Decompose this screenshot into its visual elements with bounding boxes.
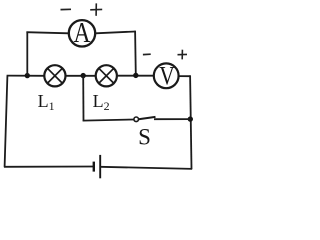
lamp L2: [96, 65, 117, 86]
wire: switch branch horizontal right of switch: [154, 118, 190, 120]
svg-text:S: S: [138, 125, 151, 150]
wire: switch branch horizontal left of switch: [83, 120, 134, 121]
wire: lamp rail segment left of L1: [7, 75, 45, 77]
wire: lamp rail between L1 and L2: [65, 75, 96, 77]
node: junction dot between L2 and voltmeter: [133, 73, 138, 78]
lamp L1: [44, 65, 65, 86]
node: junction dot left of L1 (ammeter branch tap): [25, 73, 30, 78]
wire: switch branch vertical from lamp rail: [82, 76, 84, 121]
ammeter A: [69, 17, 95, 49]
wire: left vertical (battery to lamp rail): [5, 76, 8, 167]
wire: lamp rail right of voltmeter to corner: [178, 75, 190, 77]
wire: right vertical (corner down to bottom): [190, 75, 191, 169]
voltmeter V: [154, 61, 179, 90]
wire: ammeter branch right vertical: [134, 31, 137, 76]
wire: ammeter branch top-right horizontal: [96, 32, 136, 34]
svg-text:A: A: [74, 17, 91, 49]
label L2: [93, 91, 110, 113]
wire: bottom left (battery negative lead): [4, 166, 94, 168]
battery cell: [94, 155, 100, 178]
wire: ammeter branch left vertical: [26, 32, 28, 76]
svg-text:V: V: [159, 61, 175, 90]
svg-text:L1: L1: [38, 91, 55, 113]
label S: [138, 125, 151, 150]
node: junction dot between L1 and L2 (switch branch tap): [81, 73, 86, 78]
label: minus sign of ammeter: [61, 8, 72, 10]
wire: lamp rail between L2 and voltmeter: [116, 75, 154, 77]
wire: ammeter branch top-left horizontal: [26, 32, 68, 33]
svg-text:L2: L2: [93, 91, 110, 113]
wire: bottom right (battery positive lead): [100, 167, 192, 169]
node: junction dot at right vertical and switch branch: [188, 116, 193, 121]
label: plus sign of voltmeter: [178, 50, 188, 60]
switch S: [134, 117, 156, 122]
label L1: [38, 91, 55, 113]
label: plus sign of ammeter: [90, 3, 102, 15]
label: minus sign of voltmeter: [143, 53, 151, 55]
